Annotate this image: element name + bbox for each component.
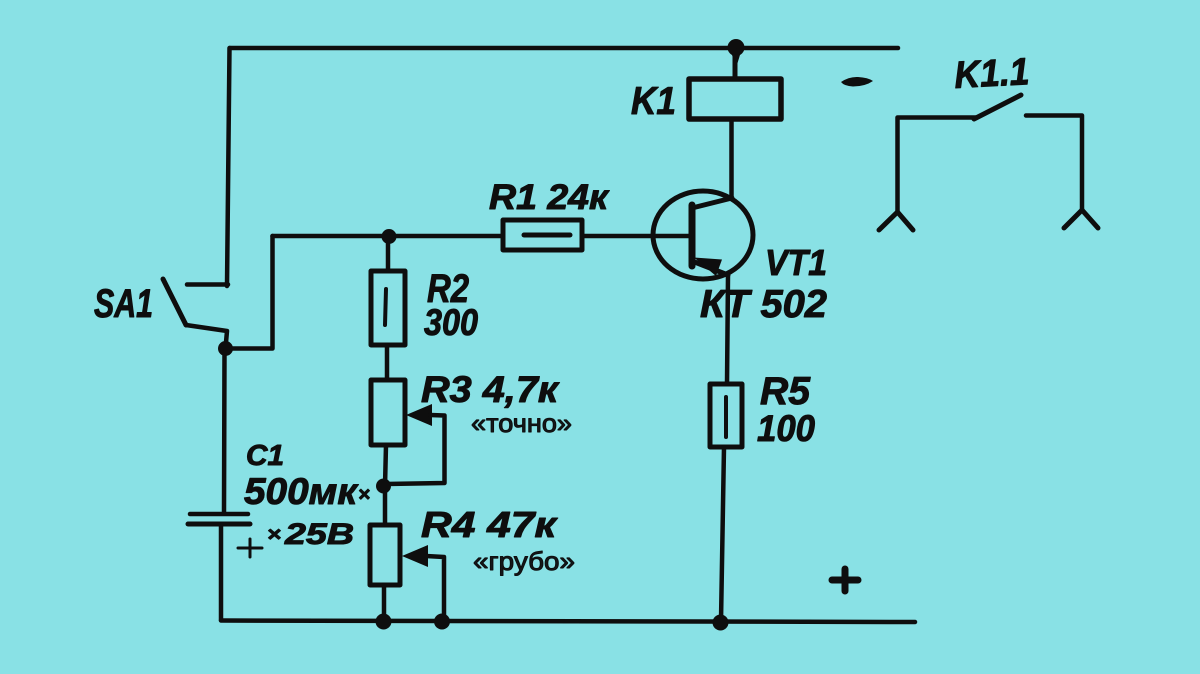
svg-text:«грубо»: «грубо» (473, 546, 575, 576)
resistor R1 inner mark (524, 233, 570, 238)
wire: collector to relay K1 (729, 119, 734, 198)
svg-text:C1: C1 (246, 440, 284, 472)
svg-text:300: 300 (424, 302, 478, 343)
contact K1.1 left terminal (898, 118, 977, 214)
potentiometer R4 body (370, 525, 400, 585)
svg-text:×: × (267, 524, 281, 546)
wire: R5 bottom lead (721, 447, 724, 621)
svg-text:K1.1: K1.1 (953, 51, 1030, 97)
switch SA1 blade (163, 279, 186, 325)
potentiometer R3 body (371, 380, 405, 445)
node: R4 bottom junction dot (376, 614, 392, 630)
svg-text:K1: K1 (631, 80, 676, 123)
svg-text:25В: 25В (284, 518, 354, 551)
wire: stub from rail to relay K1 (733, 50, 738, 79)
contact K1.1 left fork (879, 212, 913, 230)
transistor VT1 base bar (689, 205, 696, 266)
wire: emitter to R5 (727, 275, 728, 384)
svg-text:R4 47к: R4 47к (421, 504, 558, 545)
wire: SA1 upper contact stub (187, 282, 228, 287)
wire: R3 bottom lead (385, 445, 386, 486)
svg-text:500мк: 500мк (244, 471, 359, 512)
resistor R1 body (503, 220, 582, 250)
potentiometer R3 wiper arrow (406, 404, 432, 426)
svg-text:R3 4,7к: R3 4,7к (421, 369, 560, 410)
minus terminal mark (841, 77, 873, 87)
wire: left vertical from top rail to SA1 (227, 48, 230, 286)
capacitor C1 polarity plus (238, 539, 262, 557)
capacitor C1 top plate (190, 512, 248, 517)
contact K1.1 blade (974, 95, 1021, 119)
node: top rail junction dot (728, 39, 745, 56)
capacitor C1 bottom plate (188, 522, 250, 527)
node: R4 wiper junction dot (434, 614, 450, 630)
wire: capacitor C1 top lead (222, 352, 227, 512)
node: junction dot at R2 top (382, 229, 397, 244)
wire: R2 top lead (386, 236, 391, 271)
resistor R2 body (371, 271, 405, 345)
wire: R2-R3 link (385, 345, 390, 380)
resistor R2 inner mark (385, 289, 386, 325)
contact K1.1 right fork (1064, 210, 1098, 228)
wire: R4 top lead (383, 486, 388, 525)
wire: base rail from left branch to transistor base (273, 234, 693, 239)
svg-text:R5: R5 (760, 370, 811, 413)
transistor VT1 emitter arrow (694, 258, 722, 277)
wire: R4 wiper return (426, 556, 444, 618)
transistor VT1 circle (653, 191, 753, 279)
wire: R3 wiper return (386, 415, 445, 484)
svg-text:SA1: SA1 (94, 282, 153, 326)
wire: bottom positive rail (221, 621, 915, 623)
transistor VT1 collector diagonal (692, 198, 732, 208)
svg-text:VT1: VT1 (765, 242, 827, 283)
svg-text:«точно»: «точно» (471, 408, 572, 438)
relay coil K1 body (689, 79, 781, 119)
potentiometer R4 wiper arrow (402, 545, 428, 567)
transistor VT1 emitter diagonal (692, 261, 728, 275)
svg-text:×: × (358, 484, 370, 506)
node: R5 bottom junction dot (713, 615, 729, 631)
plus terminal mark (832, 569, 858, 591)
wire: R4 bottom lead (382, 585, 387, 621)
svg-text:R1 24к: R1 24к (489, 178, 610, 217)
resistor R5 body (710, 384, 742, 447)
wire: capacitor C1 bottom lead (219, 526, 224, 620)
resistor R5 inner mark (724, 397, 728, 437)
node: SA1 junction dot (218, 341, 233, 356)
wire: junction to base branch (right then up) (226, 236, 273, 349)
contact K1.1 right terminal (1026, 116, 1082, 212)
svg-text:КТ 502: КТ 502 (700, 283, 827, 326)
wire: SA1 lower contact link (186, 325, 227, 348)
node: R3/R4 junction dot (376, 479, 391, 494)
svg-text:100: 100 (757, 408, 815, 449)
wire: top negative rail (230, 46, 898, 51)
